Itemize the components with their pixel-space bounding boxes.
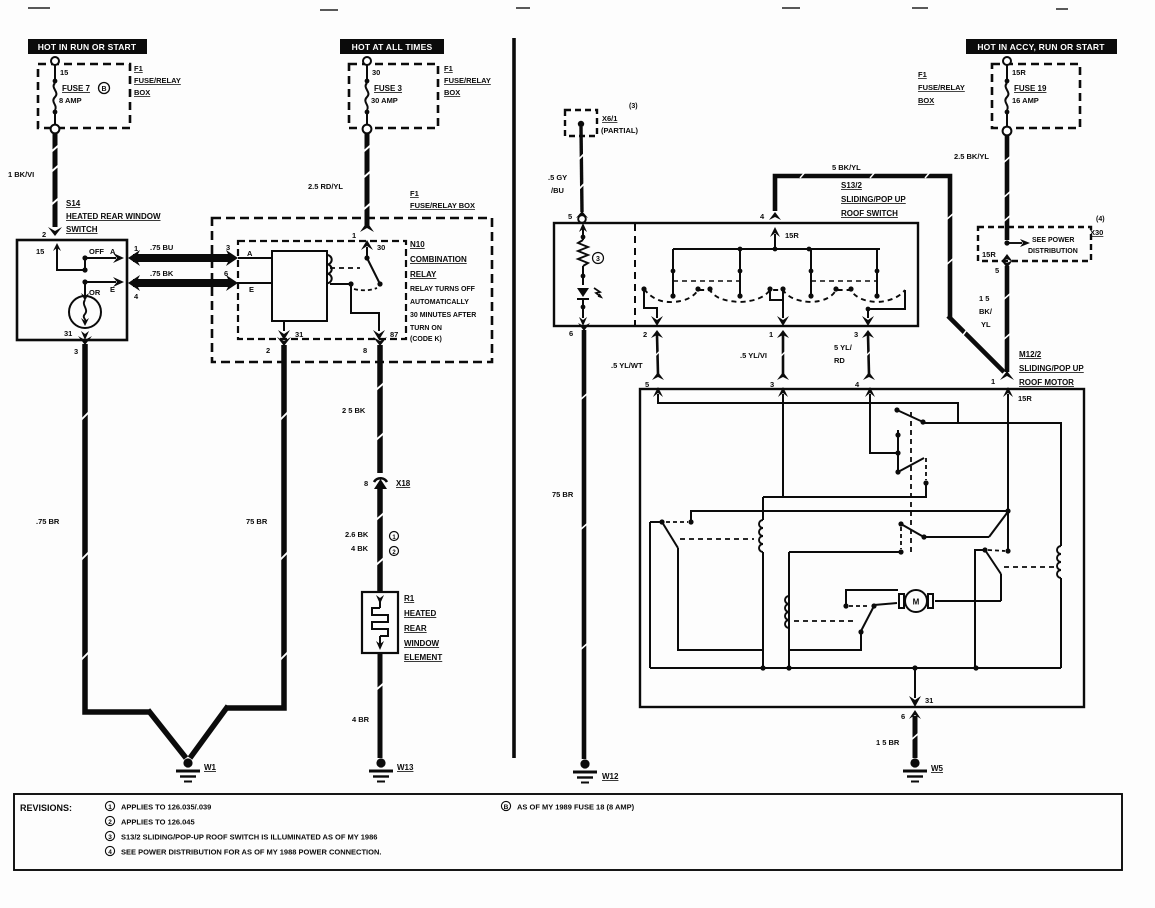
- svg-text:75 BR: 75 BR: [552, 490, 574, 499]
- svg-text:(PARTIAL): (PARTIAL): [601, 126, 638, 135]
- power label: HOT AT ALL TIMES: [340, 39, 444, 54]
- svg-text:DISTRIBUTION: DISTRIBUTION: [1028, 248, 1078, 255]
- connector X30 / see power distribution: [978, 216, 1105, 268]
- motor upper switch b contacts: [763, 430, 929, 497]
- svg-text:SLIDING/POP UP: SLIDING/POP UP: [1019, 364, 1084, 373]
- svg-text:M: M: [913, 598, 920, 607]
- svg-text:1: 1: [991, 377, 995, 386]
- R1 label: [404, 594, 442, 662]
- S13/2 pin 4 entry: [760, 212, 799, 249]
- svg-text:HEATED REAR WINDOW: HEATED REAR WINDOW: [66, 212, 161, 221]
- connector X18: [364, 478, 411, 489]
- svg-text:15R: 15R: [1018, 394, 1032, 403]
- svg-text:S13/2: S13/2: [841, 181, 862, 190]
- motor mid-right switch: [898, 513, 1007, 555]
- motor lower-left switch: [789, 590, 898, 650]
- revisions box: [14, 794, 1122, 870]
- fuse F3 (30 amp): [363, 57, 403, 133]
- svg-text:X18: X18: [396, 479, 411, 488]
- svg-text:FUSE 7: FUSE 7: [62, 84, 91, 93]
- svg-text:RD: RD: [834, 356, 845, 365]
- motor left switch: [650, 519, 763, 668]
- relay N10 label: [410, 240, 476, 343]
- svg-text:2.5 RD/YL: 2.5 RD/YL: [308, 182, 343, 191]
- svg-text:1 5: 1 5: [979, 294, 989, 303]
- svg-text:1 BK/VI: 1 BK/VI: [8, 170, 34, 179]
- revisions note B: [501, 801, 634, 811]
- fuse/relay box F1 (left) label: [134, 64, 181, 97]
- fuse/relay box F1 (center) dashed: [349, 64, 438, 128]
- svg-text:F1: F1: [444, 64, 453, 73]
- svg-text:APPLIES TO 126.035/.039: APPLIES TO 126.035/.039: [121, 803, 211, 812]
- svg-text:15R: 15R: [785, 231, 799, 240]
- svg-text:FUSE/RELAY: FUSE/RELAY: [444, 76, 491, 85]
- svg-text:RELAY TURNS OFF: RELAY TURNS OFF: [410, 286, 476, 293]
- svg-text:6: 6: [901, 712, 905, 721]
- svg-text:W5: W5: [931, 764, 944, 773]
- motor lower-right switch: [982, 547, 1054, 601]
- svg-text:F1: F1: [410, 189, 419, 198]
- svg-text:BOX: BOX: [444, 88, 460, 97]
- svg-text:E: E: [249, 285, 254, 294]
- relay N10 inner dashed box: [238, 241, 406, 339]
- fuse/relay box F1 (center) label: [444, 64, 491, 97]
- svg-text:.5 YL/VI: .5 YL/VI: [740, 351, 767, 360]
- svg-text:FUSE/RELAY: FUSE/RELAY: [918, 83, 965, 92]
- motor pin 31: [909, 668, 933, 707]
- svg-text:W1: W1: [204, 763, 217, 772]
- svg-text:BOX: BOX: [918, 96, 934, 105]
- fuse/relay box F1 (left) dashed: [38, 64, 130, 128]
- svg-text:15: 15: [60, 68, 68, 77]
- svg-text:.75 BR: .75 BR: [36, 517, 60, 526]
- svg-text:SWITCH: SWITCH: [66, 225, 98, 234]
- revisions note 4: [105, 846, 381, 856]
- svg-text:X6/1: X6/1: [602, 114, 617, 123]
- svg-text:(CODE K): (CODE K): [410, 336, 442, 343]
- motor wires: pin5 feed line: [658, 401, 958, 423]
- svg-text:AUTOMATICALLY: AUTOMATICALLY: [410, 299, 469, 306]
- svg-text:HOT AT ALL TIMES: HOT AT ALL TIMES: [352, 42, 433, 52]
- svg-text:HOT IN ACCY, RUN OR START: HOT IN ACCY, RUN OR START: [977, 42, 1105, 52]
- svg-text:31: 31: [295, 330, 303, 339]
- motor coil 1 (left): [759, 497, 763, 668]
- svg-text:5: 5: [568, 212, 572, 221]
- svg-text:F1: F1: [134, 64, 143, 73]
- ground W12: [573, 759, 619, 782]
- svg-text:1: 1: [769, 330, 773, 339]
- svg-text:SEE POWER: SEE POWER: [1032, 237, 1074, 244]
- svg-text:5: 5: [995, 266, 999, 275]
- fuse F19 (16 amp): [1003, 57, 1047, 135]
- svg-text:3: 3: [854, 330, 858, 339]
- svg-text:3: 3: [226, 243, 230, 252]
- S13/2 illumination resistor with note 3: [578, 223, 604, 285]
- svg-text:FUSE/RELAY BOX: FUSE/RELAY BOX: [410, 201, 475, 210]
- svg-text:TURN ON: TURN ON: [410, 325, 442, 332]
- svg-text:3: 3: [108, 834, 112, 841]
- fuse/relay box F1 (right) label: [918, 70, 965, 105]
- wire 1.5 BK/YL (X30 to motor pin 1): [979, 266, 1014, 386]
- relay N10 pin 31: [278, 321, 303, 340]
- svg-text:1: 1: [108, 804, 112, 811]
- svg-text:16 AMP: 16 AMP: [1012, 96, 1039, 105]
- motor dashed linkage vertical: [910, 412, 912, 552]
- wire 75 BR (relay pin 2 to ground W1): [190, 337, 291, 758]
- svg-text:M12/2: M12/2: [1019, 350, 1042, 359]
- ground W13: [369, 758, 414, 781]
- svg-text:COMBINATION: COMBINATION: [410, 255, 467, 264]
- svg-text:8 AMP: 8 AMP: [59, 96, 82, 105]
- svg-text:HOT IN RUN OR START: HOT IN RUN OR START: [38, 42, 137, 52]
- S13/2 illumination LED: [577, 288, 601, 326]
- S13/2 rocker dashed wave: [644, 289, 905, 302]
- connector X6/1 (partial): [565, 103, 638, 136]
- svg-text:HEATED: HEATED: [404, 609, 437, 618]
- revisions note 1: [105, 801, 211, 811]
- svg-text:4 BK: 4 BK: [351, 544, 369, 553]
- S13/2 pin 3 output: [834, 290, 905, 389]
- motor crossbar line: [688, 508, 1010, 524]
- wire .75 BU (S14 pin1 to relay pin3/A): [128, 243, 238, 266]
- svg-text:ROOF MOTOR: ROOF MOTOR: [1019, 378, 1074, 387]
- svg-text:15R: 15R: [982, 250, 996, 259]
- svg-text:FUSE/RELAY: FUSE/RELAY: [134, 76, 181, 85]
- svg-text:W12: W12: [602, 772, 619, 781]
- svg-text:5 YL/: 5 YL/: [834, 343, 853, 352]
- motor pin 1 entry arrow: [1003, 387, 1013, 403]
- wire 1 BK/VI (fuse 7 to S14 pin 2): [8, 133, 62, 239]
- svg-text:15R: 15R: [1012, 68, 1026, 77]
- svg-text:1: 1: [352, 231, 356, 240]
- motor M12/2 label: [1019, 350, 1084, 387]
- svg-text:REVISIONS:: REVISIONS:: [20, 803, 72, 813]
- relay N10 switch contact: [330, 255, 383, 331]
- svg-text:5: 5: [645, 380, 649, 389]
- svg-text:S14: S14: [66, 199, 81, 208]
- power label: HOT IN ACCY RUN OR START: [966, 39, 1117, 54]
- page border dash marks: [28, 8, 1068, 10]
- wire .5 GY/BU (X6/1 to S13/2 pin 5): [548, 127, 588, 223]
- svg-text:15: 15: [36, 247, 44, 256]
- svg-text:2: 2: [108, 819, 112, 826]
- svg-text:B: B: [101, 86, 106, 93]
- wire 4 BR (R1 to ground W13): [352, 653, 384, 758]
- revisions note 2: [105, 816, 194, 826]
- svg-text:2: 2: [42, 230, 46, 239]
- svg-text:SEE POWER DISTRIBUTION FOR AS: SEE POWER DISTRIBUTION FOR AS OF MY 1988…: [121, 848, 381, 857]
- S13/2 rocker switch network: [673, 249, 880, 296]
- motor pin 4 entry arrow: [865, 387, 875, 403]
- S13/2 pin 1 output: [740, 289, 789, 389]
- svg-text:30 AMP: 30 AMP: [371, 96, 398, 105]
- svg-text:8: 8: [364, 479, 368, 488]
- svg-text:ELEMENT: ELEMENT: [404, 653, 442, 662]
- motor coil 3 (right): [1057, 546, 1061, 668]
- svg-text:4 BR: 4 BR: [352, 715, 370, 724]
- svg-text:30: 30: [377, 243, 385, 252]
- svg-text:SLIDING/POP UP: SLIDING/POP UP: [841, 195, 906, 204]
- svg-text:E: E: [110, 285, 115, 294]
- revisions note 3: [105, 831, 377, 841]
- svg-text:F1: F1: [918, 70, 927, 79]
- svg-text:BK/: BK/: [979, 307, 993, 316]
- svg-text:YL: YL: [981, 320, 991, 329]
- svg-text:W13: W13: [397, 763, 414, 772]
- svg-text:6: 6: [224, 269, 228, 278]
- motor M: [899, 590, 1001, 612]
- svg-text:.75 BU: .75 BU: [150, 243, 173, 252]
- power label: HOT IN RUN OR START: [28, 39, 147, 54]
- relay N10 coil body: [238, 249, 332, 321]
- wire 1.5 BR (motor pin 6 to ground W5): [876, 710, 921, 758]
- svg-text:R1: R1: [404, 594, 415, 603]
- switch S14 body: [17, 240, 127, 340]
- svg-text:(4): (4): [1096, 216, 1105, 223]
- switch S14 label: [66, 199, 161, 234]
- motor coil 2 (center): [785, 550, 984, 668]
- svg-text:.75 BK: .75 BK: [150, 269, 174, 278]
- relay N10 pin 87: [373, 330, 398, 340]
- svg-text:BOX: BOX: [134, 88, 150, 97]
- svg-text:75 BR: 75 BR: [246, 517, 268, 526]
- svg-text:X30: X30: [1090, 228, 1103, 237]
- ground W5: [903, 758, 944, 781]
- wire .75 BK (S14 pin4 to relay pin6/E): [128, 269, 238, 301]
- svg-text:FUSE 19: FUSE 19: [1014, 84, 1047, 93]
- motor upper switch a: [894, 407, 1061, 546]
- svg-text:87: 87: [390, 330, 398, 339]
- relay N10 pin 1 / 30: [361, 240, 385, 258]
- svg-text:30: 30: [372, 68, 380, 77]
- wire .75 BR (S14 pin 3 to ground W1): [36, 336, 186, 758]
- motor M12/2 box: [640, 389, 1084, 707]
- svg-text:REAR: REAR: [404, 624, 427, 633]
- ground W1: [176, 758, 217, 781]
- svg-text:30 MINUTES AFTER: 30 MINUTES AFTER: [410, 312, 476, 319]
- motor bottom bus: [650, 665, 1061, 670]
- svg-text:31: 31: [64, 329, 72, 338]
- svg-text:2: 2: [266, 346, 270, 355]
- motor wires: pin4 vertical: [870, 401, 896, 453]
- switch S13/2 label: [841, 181, 906, 218]
- wire 2.5 RD/YL (fuse 3 to relay pin 1): [308, 133, 374, 240]
- svg-text:N10: N10: [410, 240, 425, 249]
- motor pin 5 entry arrow: [653, 387, 663, 403]
- svg-text:31: 31: [925, 696, 933, 705]
- wire 2.5 BK (relay pin 8 to X18): [342, 337, 387, 473]
- fuse F7 (8 amp): [51, 57, 110, 133]
- resistor R1 heated rear window element: [362, 592, 398, 653]
- svg-text:ROOF SWITCH: ROOF SWITCH: [841, 209, 898, 218]
- svg-text:2 5 BK: 2 5 BK: [342, 406, 366, 415]
- svg-text:8: 8: [363, 346, 367, 355]
- svg-text:A: A: [247, 249, 253, 258]
- svg-text:4: 4: [108, 849, 112, 856]
- S13/2 pin 2 output: [611, 289, 664, 389]
- svg-text:2.6 BK: 2.6 BK: [345, 530, 369, 539]
- wire 2.5 BK/YL (fuse 19 to X30): [954, 135, 1011, 240]
- svg-text:OFF: OFF: [89, 247, 104, 256]
- fuse/relay box F1 (relay) outer dashed box: [212, 218, 492, 362]
- switch S13/2 body: [554, 223, 918, 326]
- wire 2.6 BK / 4 BK (X18 to R1): [345, 484, 399, 592]
- motor pin 3 entry arrow: [778, 387, 788, 403]
- svg-text:3: 3: [770, 380, 774, 389]
- svg-text:APPLIES TO 126.045: APPLIES TO 126.045: [121, 818, 195, 827]
- lamp (S14 illumination): [64, 282, 101, 340]
- svg-text:6: 6: [569, 329, 573, 338]
- motor wires: pin1 vertical: [1007, 401, 1009, 551]
- svg-text:FUSE 3: FUSE 3: [374, 84, 403, 93]
- divider line: [512, 38, 516, 758]
- S13/2 rocker dots: [641, 247, 879, 299]
- fuse/relay box F1 (right) dashed: [992, 64, 1080, 128]
- fuse/relay box F1 (relay) label: [410, 189, 475, 210]
- svg-text:.5 GY: .5 GY: [548, 173, 567, 182]
- svg-text:2: 2: [643, 330, 647, 339]
- svg-text:(3): (3): [629, 103, 638, 110]
- svg-text:AS OF MY 1989 FUSE 18 (8 AMP): AS OF MY 1989 FUSE 18 (8 AMP): [517, 803, 635, 812]
- svg-text:RELAY: RELAY: [410, 270, 437, 279]
- svg-text:S13/2 SLIDING/POP-UP ROOF SWIT: S13/2 SLIDING/POP-UP ROOF SWITCH IS ILLU…: [121, 833, 377, 842]
- svg-text:3: 3: [74, 347, 78, 356]
- wire .75 BR (S13/2 pin 6 to ground W12): [552, 323, 590, 759]
- wire 5 BK/YL (S13/2 pin 4 to motor pin 1): [775, 163, 1004, 372]
- svg-text:2.5 BK/YL: 2.5 BK/YL: [954, 152, 989, 161]
- svg-text:.5 YL/WT: .5 YL/WT: [611, 361, 643, 370]
- motor wires: pin3 vertical: [782, 401, 784, 497]
- svg-text:OR: OR: [89, 288, 101, 297]
- svg-text:/BU: /BU: [551, 186, 564, 195]
- svg-text:WINDOW: WINDOW: [404, 639, 440, 648]
- svg-text:B: B: [504, 804, 509, 811]
- svg-text:5 BK/YL: 5 BK/YL: [832, 163, 861, 172]
- svg-text:3: 3: [596, 256, 600, 263]
- svg-text:1 5 BR: 1 5 BR: [876, 738, 900, 747]
